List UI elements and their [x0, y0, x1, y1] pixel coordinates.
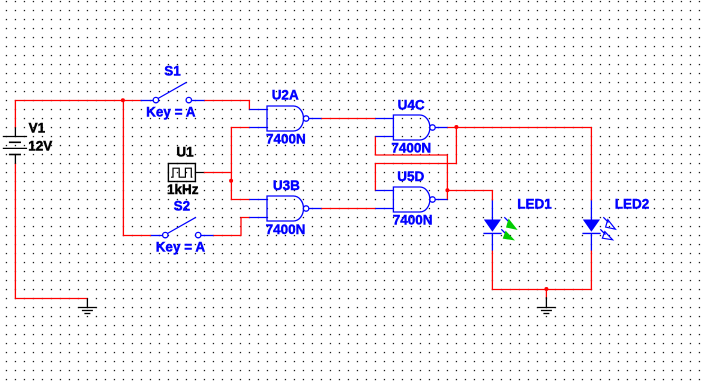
wire node A down to S2 [123, 101, 151, 236]
junction dot on clock bus [229, 179, 233, 183]
svg-text:1kHz: 1kHz [167, 182, 199, 197]
wire U5D output feedback to U4C input 2 [375, 137, 447, 200]
wire U4C output feedback to U5D input 1 [375, 128, 456, 191]
LED2 [582, 200, 615, 250]
node A junction dot [121, 98, 125, 102]
wire S1 right to U2A input 1 [204, 101, 249, 110]
ground 2 (LED rail) [537, 297, 555, 313]
switch S1 [141, 82, 205, 103]
svg-text:12V: 12V [28, 138, 52, 153]
svg-text:7400N: 7400N [391, 140, 431, 155]
wire U1 clock output [204, 172, 232, 174]
NAND gate U5D [375, 187, 447, 212]
wire U2A output to U4C input 1 [321, 118, 375, 120]
svg-text:U5D: U5D [397, 169, 424, 184]
NAND gate U3B [249, 196, 321, 221]
ground 1 (battery) [78, 299, 96, 314]
switch S2 [151, 217, 214, 238]
wire U3B output to U5D input 2 [321, 208, 375, 210]
NAND gate U4C [375, 115, 447, 140]
wire battery top to node A [15, 101, 141, 128]
wire S2 right to U3B input 2 [213, 218, 249, 236]
wire battery bottom to ground 1 [15, 163, 87, 298]
svg-text:U2A: U2A [272, 87, 299, 102]
svg-text:LED2: LED2 [615, 196, 650, 211]
junction dot at ground rail [544, 287, 548, 291]
junction dot at U5D output branch [445, 188, 449, 192]
svg-text:S1: S1 [164, 63, 181, 78]
clock source U1 [168, 164, 203, 182]
NAND gate U2A [249, 106, 321, 131]
wire U5D output branch to LED1 [447, 191, 492, 201]
wire LED1 bottom to ground rail [492, 250, 591, 289]
junction dot at U4C output [454, 125, 458, 129]
svg-text:7400N: 7400N [266, 222, 306, 237]
svg-text:Key = A: Key = A [156, 240, 206, 255]
svg-text:Key = A: Key = A [146, 105, 196, 120]
svg-text:U3B: U3B [273, 178, 300, 193]
wire ground rail stub to ground 2 [545, 290, 547, 299]
svg-text:7400N: 7400N [393, 213, 433, 228]
svg-text:S2: S2 [174, 199, 191, 214]
wire clock vertical bus to U2A input 2 and U3B input 1 [231, 128, 249, 200]
svg-text:U1: U1 [176, 144, 194, 159]
svg-text:V1: V1 [29, 120, 46, 135]
LED1 [483, 200, 516, 250]
svg-text:U4C: U4C [398, 98, 425, 113]
svg-text:LED1: LED1 [517, 196, 552, 211]
svg-text:7400N: 7400N [266, 131, 306, 146]
wire U4C output to LED2 [447, 128, 591, 201]
battery V1 [3, 127, 27, 164]
